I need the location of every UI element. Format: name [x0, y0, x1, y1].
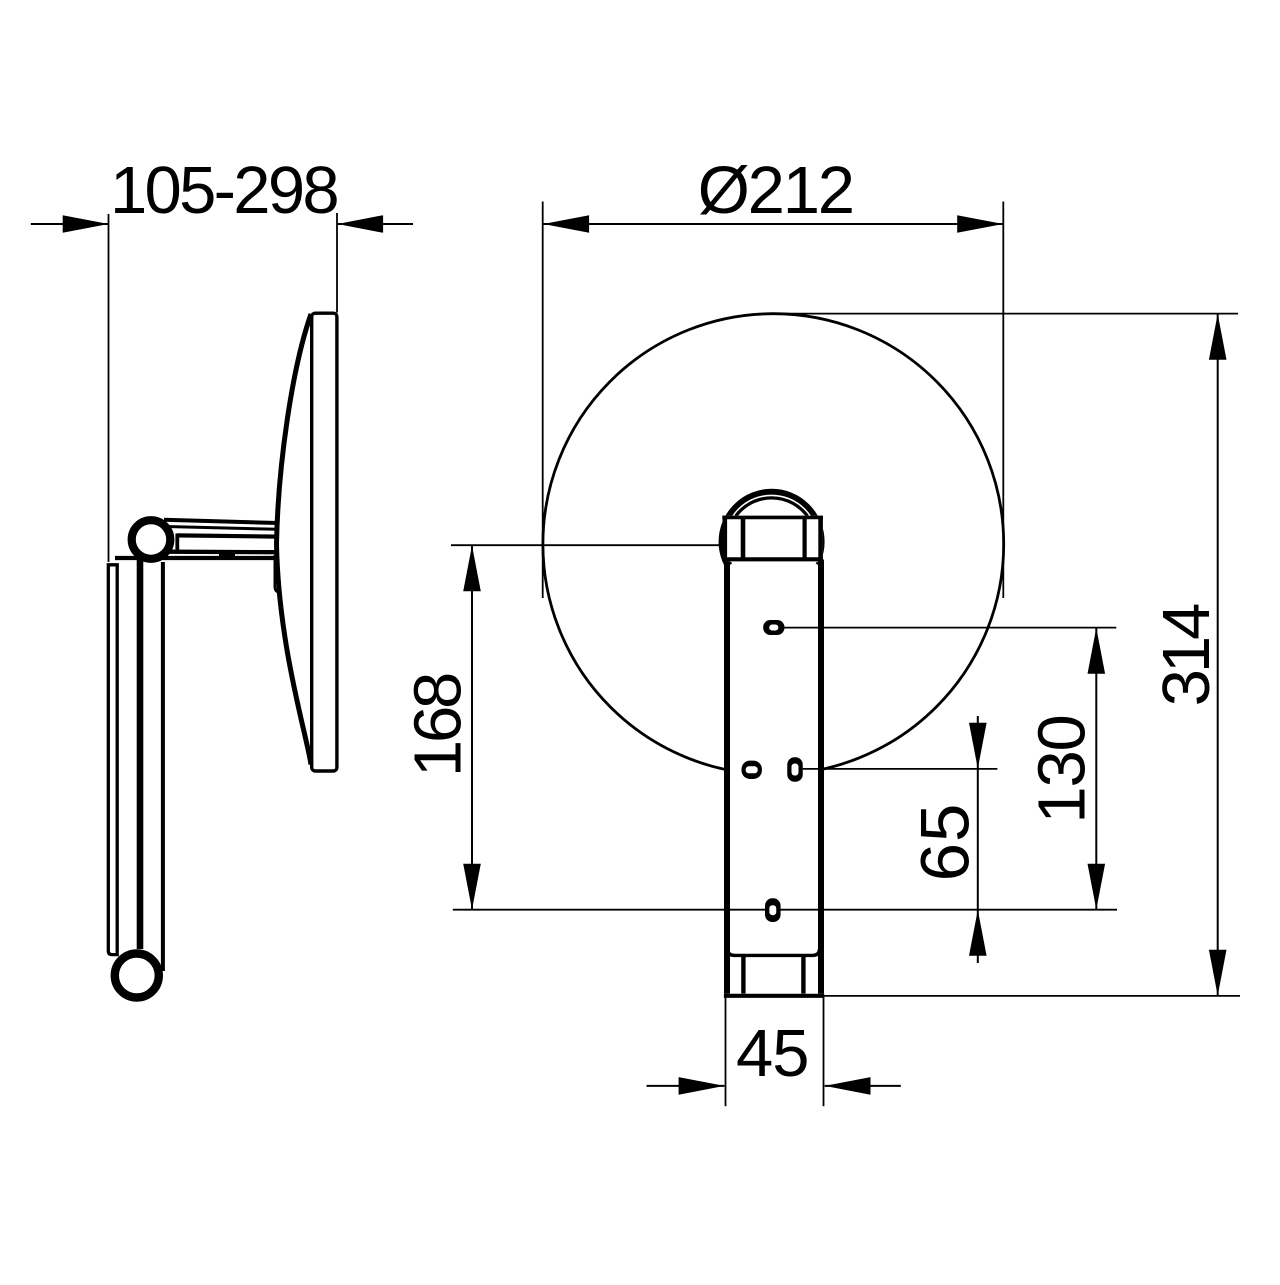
dimension 314 bottom arrow: [1209, 950, 1227, 996]
small nick under arm: [219, 554, 235, 557]
dimension 45 right arrow: [825, 1077, 871, 1095]
clamp right chamfer tick: [816, 563, 821, 567]
dimension 105-298 line right tail: [337, 223, 413, 225]
arm second link (bar2) top edge: [177, 535, 278, 536]
clamp block fill: [723, 516, 823, 562]
dimension D212 line: [543, 223, 1003, 225]
pivot disc behind clamp: [722, 492, 822, 592]
arm second link (bar2) bottom edge: [169, 550, 278, 555]
dimension 105-298 left extension line: [108, 214, 110, 562]
mirror back plate: [312, 313, 337, 771]
bottom slot hole: [765, 898, 781, 922]
elbow circle (bottom pivot): [115, 954, 159, 998]
white occluder behind arm: [246, 517, 273, 594]
dimension D212 right extension line: [1002, 202, 1004, 599]
mirror lens (side profile arc): [277, 314, 312, 765]
arm top link (bar1) bottom edge: [166, 527, 278, 530]
bracket foot left line: [741, 957, 745, 994]
bracket stem right edge: [818, 560, 824, 994]
reference line bottom hole (shared 168/130/65 bottom): [453, 909, 1117, 911]
dimension 45 left arrow: [679, 1077, 725, 1095]
dimension 314 line: [1217, 314, 1219, 996]
dimension 130 bottom arrow: [1088, 864, 1106, 910]
bracket foot right line: [801, 957, 805, 994]
folded link right edge: [161, 562, 165, 971]
dimension 45 right line: [825, 1085, 901, 1087]
mount boss on mirror back: [275, 555, 282, 592]
dimension 65 line: [977, 716, 979, 963]
dome inner arc: [736, 498, 808, 516]
folded link left edge: [137, 560, 144, 949]
arm top link (bar1) top edge: [164, 520, 278, 523]
clamp inner right line: [802, 517, 806, 560]
bracket stem bottom edge: [724, 994, 824, 998]
dimension 168 line: [471, 545, 473, 910]
bracket stem fill: [724, 557, 824, 996]
svg-text:65: 65: [907, 803, 984, 882]
clamp right edge: [818, 516, 823, 562]
dimension 65 top arrow (outside, pointing down): [969, 723, 987, 769]
svg-text:45: 45: [736, 1016, 809, 1091]
clamp top edge: [722, 516, 823, 520]
dimension 130 top arrow: [1088, 628, 1106, 674]
arm lower edge line (bar3): [115, 556, 278, 560]
mirror circle: [543, 314, 1004, 775]
arm second link (bar2) left edge: [175, 534, 179, 554]
bracket foot inner step: [728, 949, 820, 955]
dimension D212 right arrow: [957, 215, 1003, 233]
dimension 105-298 right arrow: [337, 215, 383, 233]
clamp left edge: [722, 516, 727, 562]
svg-text:168: 168: [401, 674, 476, 777]
dimension D212 left arrow: [543, 215, 589, 233]
clamp bottom edge: [722, 557, 823, 561]
clamp left chamfer tick: [727, 563, 732, 567]
svg-text:Ø212: Ø212: [698, 153, 853, 228]
dimension 105-298 right extension line: [336, 213, 338, 313]
dimension 168 top arrow: [463, 546, 481, 592]
reference line mirror centre (168 top): [451, 544, 722, 546]
dimension 45 left line: [647, 1085, 725, 1087]
reference line top hole (130 top): [784, 627, 1116, 629]
reference line mirror top (314 top): [773, 313, 1238, 315]
mid right slot hole: [787, 757, 803, 782]
dimension 105-298 line left tail: [31, 223, 109, 225]
dimension 314 top arrow: [1209, 314, 1227, 360]
dimension 45 left extension line: [725, 996, 727, 1106]
dimension 105-298 left arrow: [63, 215, 109, 233]
bracket stem left edge: [724, 560, 730, 994]
dimension 45 right extension line: [823, 996, 825, 1106]
dimension 168 bottom arrow: [463, 864, 481, 910]
dimension 65 bottom arrow (outside, pointing up): [969, 910, 987, 956]
reference line bracket bottom (314 bottom): [824, 995, 1240, 997]
wall plate (side): [108, 565, 117, 955]
clamp inner left line: [741, 517, 746, 560]
hinge circle (top pivot): [132, 520, 171, 559]
reference line mid hole (65 top): [803, 768, 998, 770]
svg-text:130: 130: [1025, 715, 1100, 823]
mid left slot hole: [742, 761, 762, 779]
dimension D212 left extension line: [542, 202, 544, 599]
svg-text:105-298: 105-298: [110, 153, 337, 228]
dimension 130 line: [1095, 628, 1097, 910]
top slot hole: [763, 620, 784, 635]
svg-text:314: 314: [1149, 604, 1224, 707]
